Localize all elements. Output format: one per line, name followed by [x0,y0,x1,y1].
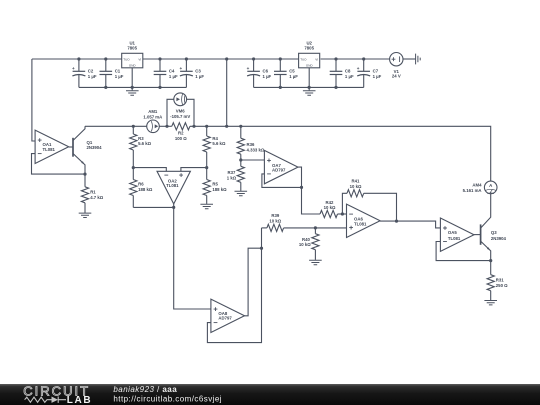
svg-text:AM4: AM4 [472,183,482,188]
svg-text:AM1: AM1 [148,109,158,114]
svg-text:Q3: Q3 [491,230,497,235]
svg-text:R41: R41 [352,179,360,184]
svg-text:7805: 7805 [127,45,137,50]
svg-text:1.057 mA: 1.057 mA [143,114,162,119]
svg-text:188 kΩ: 188 kΩ [212,187,227,192]
svg-text:24 V: 24 V [392,74,401,79]
svg-text:C6: C6 [263,69,269,74]
svg-text:4.333 kΩ: 4.333 kΩ [247,148,265,153]
svg-text:LAB: LAB [67,395,92,405]
svg-text:+: + [357,66,360,71]
svg-text:baniak923 / aaa: baniak923 / aaa [113,385,177,394]
svg-text:1 µF: 1 µF [345,74,354,79]
svg-text:OA5: OA5 [448,230,457,235]
svg-text:VI: VI [315,58,318,62]
svg-text:1 kΩ: 1 kΩ [227,175,237,180]
svg-text:10 kΩ: 10 kΩ [299,242,311,247]
svg-text:C1: C1 [115,69,121,74]
svg-text:2N3904: 2N3904 [87,145,103,150]
svg-text:+: + [179,66,182,71]
svg-text:C4: C4 [169,69,175,74]
svg-text:10 kΩ: 10 kΩ [350,184,362,189]
svg-text:R6: R6 [138,182,144,187]
svg-text:R3: R3 [138,136,144,141]
svg-text:TL081: TL081 [448,236,461,241]
svg-text:C8: C8 [345,69,351,74]
svg-text:R2: R2 [178,131,184,136]
svg-text:10 kΩ: 10 kΩ [324,205,336,210]
svg-text:R39: R39 [271,213,279,218]
svg-text:+: + [72,66,75,71]
svg-text:C3: C3 [195,69,201,74]
svg-text:R1: R1 [90,189,96,194]
svg-text:1 µF: 1 µF [289,74,298,79]
svg-text:GND: GND [129,64,137,68]
svg-text:AD797: AD797 [272,168,286,173]
svg-text:1 µF: 1 µF [115,74,124,79]
svg-text:1 µF: 1 µF [373,74,382,79]
svg-text:-105.7 mV: -105.7 mV [170,114,190,119]
svg-text:VI: VI [138,58,141,62]
svg-text:TL081: TL081 [43,147,56,152]
svg-text:GND: GND [306,64,314,68]
svg-text:7805: 7805 [304,45,314,50]
svg-text:C2: C2 [88,69,94,74]
svg-text:TL081: TL081 [354,222,367,227]
svg-text:100 Ω: 100 Ω [175,136,187,141]
svg-text:5.161 mA: 5.161 mA [463,188,482,193]
svg-text:VM6: VM6 [176,109,185,114]
svg-text:250 Ω: 250 Ω [496,283,508,288]
svg-text:+: + [247,66,250,71]
svg-text:TUO: TUO [300,58,307,62]
svg-text:R4: R4 [212,136,218,141]
svg-text:AD797: AD797 [218,316,232,321]
svg-text:TUO: TUO [123,58,130,62]
svg-text:TL081: TL081 [166,183,179,188]
svg-text:http://circuitlab.com/c6svjej: http://circuitlab.com/c6svjej [113,394,222,403]
svg-text:5.6 kΩ: 5.6 kΩ [138,141,152,146]
svg-text:1 µF: 1 µF [263,74,272,79]
svg-text:5.6 kΩ: 5.6 kΩ [212,141,226,146]
svg-text:R40: R40 [302,237,310,242]
svg-text:4.7 kΩ: 4.7 kΩ [90,195,104,200]
svg-text:1 µF: 1 µF [195,74,204,79]
svg-text:C7: C7 [373,69,379,74]
svg-text:R36: R36 [247,142,255,147]
svg-text:10 kΩ: 10 kΩ [269,219,281,224]
svg-text:R42: R42 [326,200,334,205]
svg-text:1 µF: 1 µF [88,74,97,79]
svg-text:R37: R37 [228,170,236,175]
svg-text:C5: C5 [289,69,295,74]
svg-text:R5: R5 [212,182,218,187]
svg-text:1 µF: 1 µF [169,74,178,79]
svg-text:188 kΩ: 188 kΩ [138,187,153,192]
svg-text:2N3904: 2N3904 [491,236,507,241]
